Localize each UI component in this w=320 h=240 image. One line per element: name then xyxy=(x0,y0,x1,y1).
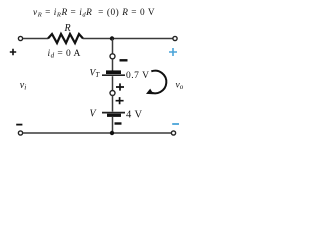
minus vi (black) xyxy=(16,124,22,126)
plus vi (black) xyxy=(10,49,16,55)
KVL curved arrow xyxy=(150,71,167,94)
wire branch upper xyxy=(112,39,114,55)
battery V thick plate xyxy=(107,114,121,117)
terminal top-left xyxy=(18,36,22,40)
wire top-left xyxy=(23,38,48,40)
minus vo (cyan) xyxy=(172,123,179,125)
svg-text:4 V: 4 V xyxy=(126,109,142,120)
node junction top xyxy=(110,36,114,40)
diode terminal circle bottom xyxy=(110,91,115,96)
terminal top-right xyxy=(173,36,177,40)
wire circle1 to VT xyxy=(112,59,114,71)
minus of battery V xyxy=(115,122,122,124)
svg-text:vR = iRR = idR = (0) R = 0 V: vR = iRR = idR = (0) R = 0 V xyxy=(33,7,155,19)
battery VT thin plate xyxy=(102,74,125,76)
resistor R xyxy=(48,34,83,43)
plus of battery V xyxy=(116,97,124,104)
diode terminal circle top xyxy=(110,54,115,59)
node junction bottom xyxy=(110,131,114,135)
svg-text:vi: vi xyxy=(20,80,27,92)
minus diode (black) xyxy=(120,59,128,61)
terminal bottom-right xyxy=(171,131,175,135)
plus below VT xyxy=(116,83,124,90)
wire top-right xyxy=(83,38,173,40)
wire VT to circle2 xyxy=(112,76,114,91)
svg-text:0.7 V: 0.7 V xyxy=(126,71,149,81)
terminal bottom-left xyxy=(18,131,22,135)
svg-text:R: R xyxy=(64,23,71,34)
wire circle2 to V xyxy=(112,95,114,111)
wire V to bottom xyxy=(112,117,114,133)
plus vo (cyan) xyxy=(169,48,177,56)
battery VT thick plate xyxy=(106,70,121,74)
bottom wire xyxy=(23,132,171,134)
battery V thin plate xyxy=(102,112,125,114)
